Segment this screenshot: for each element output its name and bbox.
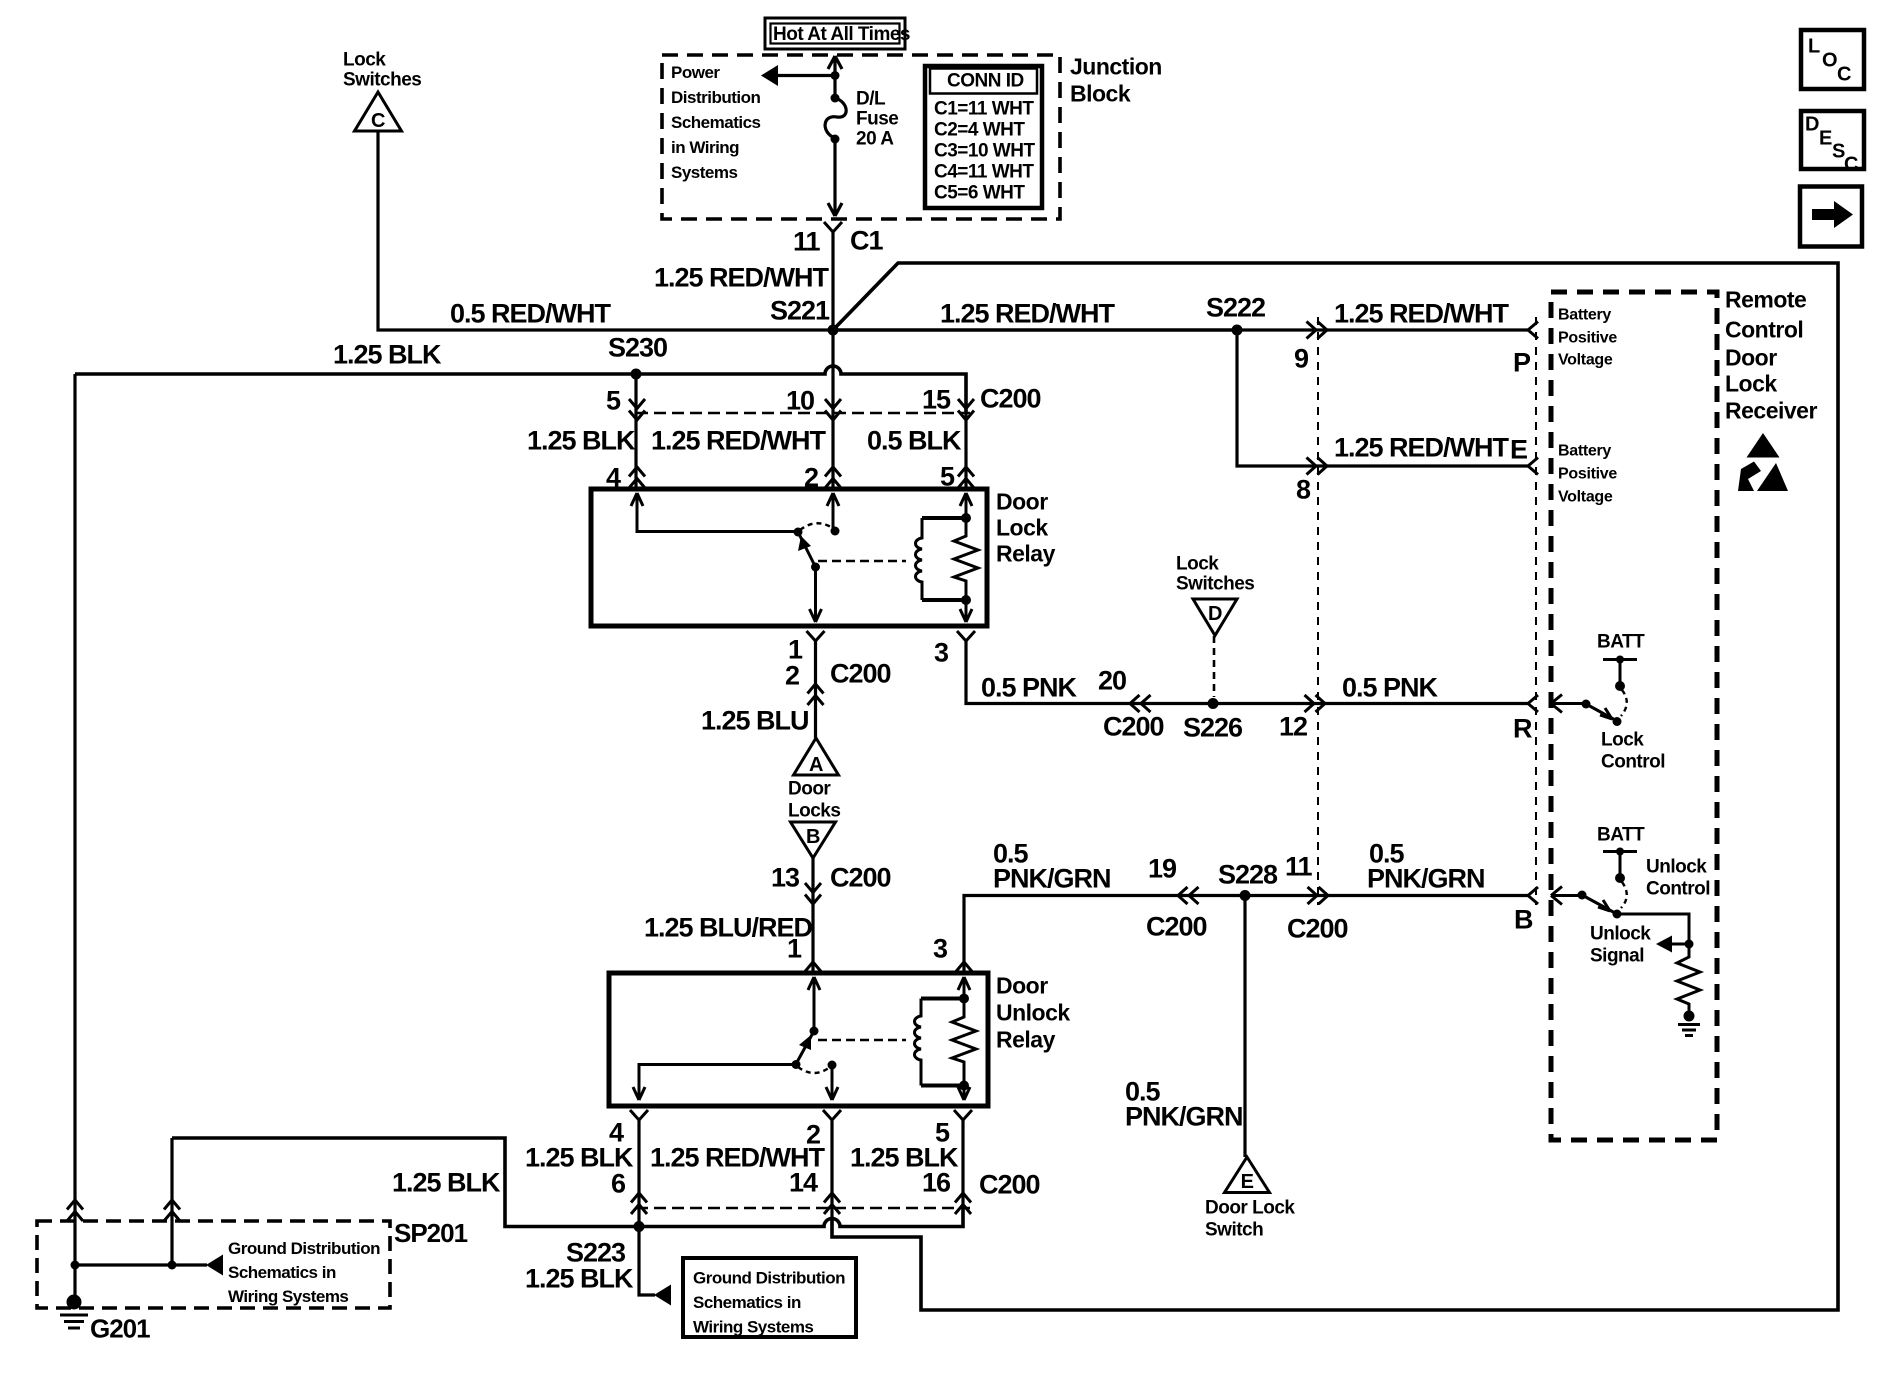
svg-text:SP201: SP201 <box>394 1218 468 1248</box>
C200 pin 19 connector on S228 row <box>1146 853 1207 941</box>
unlock relay coil <box>915 999 964 1086</box>
Hot At All Times box <box>765 18 910 49</box>
svg-text:13: 13 <box>771 862 800 892</box>
svg-text:1.25 BLU: 1.25 BLU <box>701 705 809 735</box>
svg-text:C3=10 WHT: C3=10 WHT <box>934 141 1035 162</box>
svg-text:Relay: Relay <box>996 1027 1056 1053</box>
svg-text:Schematics in: Schematics in <box>693 1293 801 1312</box>
svg-text:S222: S222 <box>1206 292 1265 322</box>
SP201 internal wire and reference arrow <box>71 1255 224 1276</box>
svg-text:Control: Control <box>1646 879 1710 900</box>
unlock relay switch throw dashed arc <box>798 1067 830 1073</box>
Junction Block label <box>1070 54 1162 107</box>
svg-text:PNK/GRN: PNK/GRN <box>993 863 1111 893</box>
wire S222 to receiver pin P <box>1237 298 1538 377</box>
svg-text:Door: Door <box>996 489 1048 515</box>
wire C1: junction block to S221, pin 11 connector <box>793 222 883 330</box>
wire from SP201 up to 1.25 BLK wire <box>164 1138 180 1265</box>
junction block dashed box <box>662 55 1060 219</box>
svg-text:C2=4 WHT: C2=4 WHT <box>934 120 1025 141</box>
battery positive voltage label (pin P) <box>1558 307 1617 369</box>
node S230 <box>608 332 667 379</box>
svg-text:C1: C1 <box>850 225 883 255</box>
svg-text:0.5 RED/WHT: 0.5 RED/WHT <box>450 298 612 328</box>
svg-text:D/L: D/L <box>856 89 886 110</box>
svg-text:BATT: BATT <box>1597 825 1645 846</box>
svg-text:Switches: Switches <box>343 70 421 91</box>
svg-text:Block: Block <box>1070 81 1131 107</box>
unlock relay pin 5 exit <box>958 1086 970 1101</box>
svg-text:11: 11 <box>1285 851 1313 881</box>
svg-text:0.5 PNK: 0.5 PNK <box>1342 672 1439 702</box>
svg-text:Switches: Switches <box>1176 574 1254 595</box>
svg-text:CONN ID: CONN ID <box>947 71 1024 92</box>
unlock control switch <box>1551 882 1627 919</box>
svg-text:Locks: Locks <box>788 801 840 822</box>
unlock control label <box>1646 857 1710 900</box>
svg-text:Lock: Lock <box>1725 371 1777 397</box>
LOC corner icon box <box>1801 30 1864 89</box>
svg-text:Door: Door <box>788 779 831 800</box>
SP201 dashed box <box>37 1218 468 1308</box>
wire pin 15 col down to relay pin 5 <box>964 412 967 489</box>
svg-text:1.25 BLK: 1.25 BLK <box>525 1263 634 1293</box>
svg-text:B: B <box>806 826 820 848</box>
svg-text:1: 1 <box>787 933 802 963</box>
lock relay pin 1 connector C200 pin 2 <box>785 631 891 738</box>
unlock relay pin 3 arrow <box>958 977 970 999</box>
svg-text:Relay: Relay <box>996 541 1056 567</box>
svg-text:3: 3 <box>934 637 949 667</box>
lock switches reference D triangle with dashed drop to S226 <box>1176 554 1254 697</box>
door locks reference label <box>788 779 840 822</box>
svg-text:C200: C200 <box>830 658 891 688</box>
svg-text:C: C <box>1837 63 1851 85</box>
svg-text:E: E <box>1241 1171 1254 1193</box>
inline connector dashed line (left) <box>1317 317 1319 905</box>
C200 pin 20 connector on S226 row <box>1098 665 1164 741</box>
unlock signal label <box>1590 924 1651 967</box>
svg-text:Lock: Lock <box>1601 730 1644 751</box>
unlock relay pin 1 arrow to switch pivot <box>808 977 820 1031</box>
unlock relay wire pivot to pin 4 <box>633 1065 796 1101</box>
svg-text:16: 16 <box>922 1167 951 1197</box>
svg-text:Lock: Lock <box>343 50 386 71</box>
svg-text:Distribution: Distribution <box>671 88 760 107</box>
wire 1.25 BLK row S230 with hop over S221 wire <box>75 339 966 412</box>
svg-text:Hot At All Times: Hot At All Times <box>773 24 910 45</box>
unlock relay pin 2 connector C200 pin 14 (wire continues to perimeter) <box>650 1110 841 1221</box>
svg-text:Control: Control <box>1725 317 1803 343</box>
svg-text:C1=11 WHT: C1=11 WHT <box>934 99 1034 120</box>
svg-text:in Wiring: in Wiring <box>671 138 739 157</box>
svg-text:0.5 BLK: 0.5 BLK <box>867 425 962 455</box>
power distribution reference text <box>671 63 761 182</box>
power distribution reference arrow <box>761 65 835 86</box>
svg-text:Junction: Junction <box>1070 54 1162 80</box>
svg-text:Wiring Systems: Wiring Systems <box>228 1287 348 1306</box>
svg-text:Voltage: Voltage <box>1558 352 1613 369</box>
C200 pin 11 connector on S228 row <box>1285 851 1348 943</box>
svg-text:14: 14 <box>789 1167 818 1197</box>
svg-text:S226: S226 <box>1183 712 1243 742</box>
receiver pin R connector <box>1513 695 1538 743</box>
svg-text:Lock: Lock <box>1176 554 1219 575</box>
wire 1.25 BLK from SP201 to S223 and pin 16, hop over pin 14 <box>172 1138 963 1227</box>
unlock signal wire and resistor to ground <box>1617 914 1700 1036</box>
svg-text:19: 19 <box>1148 853 1177 883</box>
svg-text:C200: C200 <box>979 1169 1040 1199</box>
arrow corner icon box <box>1800 187 1862 247</box>
wire S222 down and to receiver pin E <box>1237 330 1538 504</box>
unlock relay actuating dashed line <box>818 1039 906 1042</box>
unlock relay pin 4 connector C200 pin 6 to S223 <box>525 1110 648 1227</box>
lock relay pin 5 arrow <box>960 493 972 518</box>
svg-text:Control: Control <box>1601 752 1665 773</box>
BATT symbol (lock control) <box>1597 632 1645 691</box>
svg-text:O: O <box>1822 49 1837 71</box>
connector C200 dashed line (bottom) <box>636 1169 1040 1208</box>
svg-text:Remote: Remote <box>1725 287 1806 313</box>
node S228 <box>1218 859 1278 901</box>
svg-text:Switch: Switch <box>1205 1219 1263 1240</box>
svg-text:BATT: BATT <box>1597 632 1645 653</box>
svg-text:2: 2 <box>785 660 799 690</box>
node S226 <box>1183 698 1243 742</box>
lock relay pin 3 connector and wire to S226 row <box>934 631 1528 704</box>
svg-text:20: 20 <box>1098 665 1126 695</box>
lock control label <box>1601 730 1665 773</box>
svg-text:Voltage: Voltage <box>1558 489 1613 506</box>
SP201 reference text <box>228 1239 380 1306</box>
receiver pin B connector <box>1514 887 1538 934</box>
svg-text:Door: Door <box>996 973 1048 999</box>
lock relay coil <box>916 518 966 600</box>
svg-text:9: 9 <box>1294 343 1309 373</box>
svg-text:G201: G201 <box>90 1313 150 1343</box>
svg-text:C5=6 WHT: C5=6 WHT <box>934 183 1025 204</box>
door lock relay box <box>591 489 1056 626</box>
svg-text:L: L <box>1808 35 1820 57</box>
BATT symbol (unlock control) <box>1597 825 1645 883</box>
svg-text:Schematics: Schematics <box>671 113 761 132</box>
svg-text:3: 3 <box>933 933 948 963</box>
svg-text:8: 8 <box>1296 474 1311 504</box>
svg-text:6: 6 <box>611 1168 626 1198</box>
wire S221 down to relay pin 2 col <box>831 330 834 489</box>
svg-text:PNK/GRN: PNK/GRN <box>1125 1101 1243 1131</box>
svg-text:D: D <box>1208 603 1222 625</box>
svg-text:C: C <box>371 110 385 132</box>
door lock switch reference triangle E <box>1205 1157 1295 1240</box>
svg-text:Battery: Battery <box>1558 443 1611 460</box>
lock relay pin 2 arrow <box>827 493 840 536</box>
lock relay resistor <box>954 513 978 605</box>
perimeter wire 1.25 RED/WHT (S221 up-right, around right side, bottom, to pin 14) <box>832 263 1838 1310</box>
lock relay pin entry chevrons 4/2/5 <box>606 461 974 492</box>
svg-text:Unlock: Unlock <box>1646 857 1707 878</box>
battery positive voltage label (pin E) <box>1558 443 1617 506</box>
svg-text:Power: Power <box>671 63 720 82</box>
inline connector dashed line (right) <box>1535 317 1537 905</box>
svg-text:1.25 BLK: 1.25 BLK <box>392 1167 501 1197</box>
unlock relay pin 5 connector C200 pin 16 <box>850 1110 972 1214</box>
svg-text:Positive: Positive <box>1558 330 1617 347</box>
svg-text:Door Lock: Door Lock <box>1205 1197 1295 1218</box>
svg-text:1.25 RED/WHT: 1.25 RED/WHT <box>940 298 1116 328</box>
svg-text:C200: C200 <box>830 862 891 892</box>
door locks reference triangle A <box>794 738 839 776</box>
unlock relay switch blade <box>792 1027 819 1070</box>
lock relay pin 3 exit <box>960 600 972 622</box>
svg-text:Schematics in: Schematics in <box>228 1263 336 1282</box>
wire S230 down to relay pin 4 col <box>634 374 637 489</box>
remote control door lock receiver label <box>1725 287 1817 424</box>
svg-text:R: R <box>1513 713 1532 743</box>
svg-text:C: C <box>1844 153 1858 175</box>
DESC corner icon box <box>1801 111 1864 175</box>
svg-text:Unlock: Unlock <box>996 1000 1070 1026</box>
svg-text:15: 15 <box>922 384 951 414</box>
svg-text:S228: S228 <box>1218 859 1278 889</box>
node S222 <box>1206 292 1265 335</box>
lock relay pin 1 exit from switch <box>810 563 822 623</box>
svg-text:Wiring Systems: Wiring Systems <box>693 1317 813 1336</box>
wire 0.5 RED/WHT from triangle C to S221 <box>378 131 833 330</box>
node S223 <box>566 1221 645 1267</box>
node S221 <box>770 295 839 335</box>
unlock relay pin 2 contact <box>826 1061 838 1101</box>
svg-text:1.25 BLK: 1.25 BLK <box>527 425 636 455</box>
ESD sensitive symbol <box>1738 433 1788 491</box>
lock relay switch throw dashed arc <box>800 523 834 530</box>
svg-text:Receiver: Receiver <box>1725 398 1817 424</box>
svg-text:C200: C200 <box>1103 711 1164 741</box>
CONN ID table <box>925 66 1042 208</box>
wire S221 to S222 with label <box>833 298 1237 330</box>
svg-text:Ground Distribution: Ground Distribution <box>693 1268 845 1287</box>
lock control switch <box>1551 690 1627 726</box>
lock switches reference C triangle <box>343 50 421 132</box>
svg-text:1.25 RED/WHT: 1.25 RED/WHT <box>654 262 830 292</box>
svg-text:1.25 RED/WHT: 1.25 RED/WHT <box>1334 432 1510 462</box>
svg-text:11: 11 <box>793 226 821 256</box>
wire S223 down to ground reference arrow <box>525 1227 671 1306</box>
svg-text:10: 10 <box>786 385 814 415</box>
svg-text:E: E <box>1510 434 1527 464</box>
svg-text:C200: C200 <box>1146 911 1207 941</box>
svg-text:Systems: Systems <box>671 163 737 182</box>
svg-text:0.5 PNK: 0.5 PNK <box>981 672 1078 702</box>
svg-text:E: E <box>1819 127 1832 149</box>
svg-text:C200: C200 <box>980 383 1041 413</box>
svg-text:Signal: Signal <box>1590 946 1644 967</box>
wire 0.5 PNK/GRN from unlock relay pin 3 to S228 row <box>933 838 1528 973</box>
svg-text:B: B <box>1514 904 1533 934</box>
svg-text:S221: S221 <box>770 295 830 325</box>
svg-text:Lock: Lock <box>996 515 1048 541</box>
svg-text:1.25 RED/WHT: 1.25 RED/WHT <box>651 425 827 455</box>
svg-text:Door: Door <box>1725 345 1777 371</box>
lock relay actuating dashed line <box>818 560 906 563</box>
svg-text:1.25 BLK: 1.25 BLK <box>333 339 442 369</box>
wire 1.25 BLK left column down to SP201 <box>67 374 83 1304</box>
fuse D/L 20 A <box>825 56 898 216</box>
C200 top crossing chevrons pins 5/10/15 <box>606 384 974 420</box>
svg-text:Fuse: Fuse <box>856 109 898 130</box>
wire labels above lock relay <box>527 425 962 455</box>
svg-text:1.25 RED/WHT: 1.25 RED/WHT <box>1334 298 1510 328</box>
svg-text:Positive: Positive <box>1558 466 1617 483</box>
connector C200 dashed line (top) <box>636 383 1041 413</box>
C200 pin 12 connector on S226 row <box>1279 695 1325 741</box>
lock relay switch blade <box>794 528 816 568</box>
unlock relay resistor <box>952 994 976 1091</box>
lock relay pin 4 arrow and wire to switch pivot <box>631 493 795 532</box>
svg-text:C4=11 WHT: C4=11 WHT <box>934 162 1034 183</box>
wire S228 down to door lock switch <box>1125 896 1245 1158</box>
svg-text:Unlock: Unlock <box>1590 924 1651 945</box>
remote control door lock receiver dashed box <box>1551 292 1717 1140</box>
ground distribution text box (bottom center) <box>683 1258 856 1337</box>
svg-text:Battery: Battery <box>1558 307 1611 324</box>
svg-text:A: A <box>809 754 823 776</box>
svg-text:Ground Distribution: Ground Distribution <box>228 1239 380 1258</box>
svg-text:S230: S230 <box>608 332 667 362</box>
svg-text:C200: C200 <box>1287 913 1348 943</box>
ground G201 <box>60 1295 150 1344</box>
svg-text:5: 5 <box>606 385 621 415</box>
svg-text:12: 12 <box>1279 711 1307 741</box>
door locks reference triangle B <box>791 822 836 858</box>
svg-text:PNK/GRN: PNK/GRN <box>1367 863 1485 893</box>
svg-text:20 A: 20 A <box>856 129 894 150</box>
wire from triangle B through C200 pin 13 <box>644 858 891 973</box>
svg-text:P: P <box>1513 347 1531 377</box>
label 0.5 PNK/GRN (right) <box>1367 838 1485 893</box>
svg-text:D: D <box>1805 113 1819 135</box>
door unlock relay box <box>609 973 1070 1106</box>
